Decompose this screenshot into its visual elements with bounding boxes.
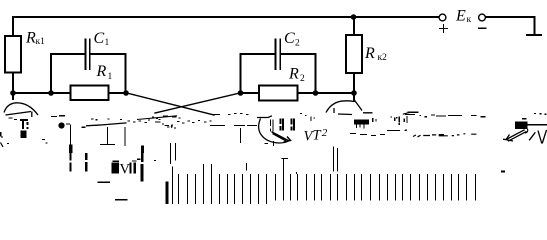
noise dash trail to VT2 base [210, 125, 257, 127]
noise dashes under VT1 [9, 118, 18, 119]
noise specks lower left [1, 137, 48, 143]
capacitor C2 [276, 40, 281, 70]
noise sloped dash line x86-126 [86, 123, 127, 126]
wire C1 branch right [91, 54, 126, 93]
noise line from rect to edge [527, 124, 547, 126]
noise dash x501 [501, 171, 505, 173]
noise ticks below rect [357, 125, 365, 129]
wire cross diagonal from R2 to VT1 base [155, 93, 240, 113]
noise y-mark left edge [1, 143, 4, 148]
noise T top bar on comb [282, 158, 289, 160]
wire bottom rail right cell [241, 92, 355, 94]
noise tick x407 [406, 116, 408, 123]
wire Rк2 top [353, 17, 355, 35]
wire C2 branch right [281, 54, 316, 93]
noise speck left x405 [405, 129, 407, 131]
noise black rect before V [112, 162, 119, 173]
wire C2 branch left riser [241, 54, 276, 93]
svg-text:C: C [284, 30, 295, 47]
noise speck x154 [154, 160, 156, 162]
wire Rк2 bottom [353, 73, 355, 93]
noise dash right of blob [66, 123, 70, 125]
noise dashes upper x162-180 [163, 116, 181, 118]
noise dashes x50-65 [51, 115, 65, 118]
node top rail Rк2 [351, 14, 357, 20]
resistor Rк1 [5, 36, 21, 73]
noise bar remnants x137-143 [141, 153, 144, 162]
transistor VT1 circle arc (corrupted) [4, 103, 38, 115]
noise speck left edge [0, 132, 2, 137]
wire left drop to Rк1 [12, 17, 14, 36]
svg-text:к1: к1 [36, 37, 46, 47]
wire VT1 collector stub [12, 93, 14, 99]
resistor R2 [259, 85, 298, 100]
noise diag dash x403-409 [403, 112, 410, 114]
capacitor C1 [86, 40, 90, 70]
svg-text:E: E [455, 8, 466, 25]
resistor Rк2 [346, 35, 362, 73]
noise thick bar x141 [141, 146, 144, 153]
noise T mark VT1 base [20, 120, 28, 129]
transistor VT1 inner line (corrupted) [6, 112, 32, 118]
svg-text:R: R [25, 30, 36, 47]
wire bottom rail left cell [13, 92, 127, 94]
noise dash above block [112, 160, 119, 162]
noise vertical x125 [124, 127, 126, 146]
noise ii bars after V [130, 163, 132, 174]
noise blob VT1 emitter [21, 131, 27, 139]
svg-text:R: R [288, 66, 299, 83]
svg-text:C: C [94, 30, 105, 47]
noise dash x115-127 [115, 199, 128, 201]
noise specks x176-211 [177, 121, 212, 124]
terminal - of Eк [479, 14, 486, 21]
svg-text:к: к [467, 15, 472, 25]
noise vertical stub above VT2 arc [259, 95, 261, 102]
noise blob circle [58, 122, 64, 128]
node R1 right [123, 90, 129, 96]
noise vertical and shallow dashes near arc [334, 108, 373, 115]
noise dash above ii [132, 160, 136, 162]
noise vertical line x70 [70, 125, 72, 148]
noise c-mark x170 [171, 125, 176, 129]
noise vertical bars x69,x86 lower [71, 153, 87, 172]
terminal + of Eк [439, 14, 446, 21]
noise black rect x515 [515, 122, 527, 129]
svg-text:1: 1 [105, 38, 110, 48]
noise comb1 verticals [165, 182, 168, 204]
wire cross diagonal from R1 to VT2 base [127, 93, 214, 115]
noise dash x97-110 [98, 181, 111, 183]
node C1/R1 left [48, 90, 54, 96]
noise black rect x354 [354, 120, 369, 125]
noise W garble x390-405 [391, 116, 404, 125]
noise comb2 verticals [276, 159, 476, 201]
noise dots top right corner of zone [534, 112, 547, 115]
noise hook at rect corner [525, 129, 528, 133]
svg-text:R: R [364, 45, 375, 62]
noise specks below VT2 [264, 141, 273, 146]
plus sign [440, 25, 447, 32]
svg-text:R: R [96, 63, 107, 80]
svg-text:1: 1 [108, 72, 113, 82]
noise dash x81 [81, 126, 85, 128]
transistor VT2 emitter arrow (corrupted) [272, 132, 291, 142]
noise streak x405-485 upper [405, 112, 486, 117]
noise rising line x137-177 [137, 116, 177, 120]
noise dash over VT2 [257, 116, 272, 118]
node R2 right [313, 90, 319, 96]
noise vertical x241 [240, 128, 242, 143]
noise thick bar x70 bottom [69, 145, 73, 154]
resistor R1 [71, 86, 109, 101]
noise verticals pair x333,x338 [334, 147, 338, 172]
noise specks above line [91, 118, 122, 121]
wire from minus terminal to ground [486, 17, 535, 35]
node at Rк1 bottom [10, 90, 16, 96]
svg-text:к2: к2 [378, 53, 388, 63]
svg-text:T: T [313, 128, 322, 144]
minus sign [479, 27, 486, 29]
wire Rк1 to bottom node [12, 73, 14, 94]
noise specks cluster x127-148 [128, 120, 151, 123]
svg-text:V: V [120, 162, 131, 178]
noise arc top right of VT2 [326, 101, 354, 113]
wire top rail [13, 16, 438, 18]
svg-text:2: 2 [300, 74, 305, 84]
transistor VT2 circle arc (corrupted) [259, 119, 290, 144]
noise diag from node down right [354, 100, 362, 111]
transistor VT2 base bars (corrupted) [271, 119, 274, 131]
noise short bar x246 [246, 163, 248, 171]
ground [527, 34, 541, 36]
noise streak x412-476 lower [413, 134, 476, 137]
noise arrow marks bottom right [503, 130, 527, 142]
noise dashes under x349-406 [350, 131, 407, 136]
wire C1 branch left riser [51, 54, 85, 93]
noise slash marks [529, 130, 546, 144]
noise marks x372 [373, 118, 376, 122]
noise dash above rect [522, 118, 527, 120]
svg-text:2: 2 [295, 39, 300, 49]
node R2 left [238, 90, 244, 96]
noise dashes diag1 continuation [213, 114, 249, 115]
svg-text:2: 2 [322, 127, 328, 139]
noise tick above VT2 label [300, 114, 315, 122]
noise thick bar x141 lower [141, 164, 144, 182]
noise specks cluster x151-175 [152, 117, 173, 127]
noise vertical with foot x107 [100, 127, 115, 145]
noise verticals x171,x176 [171, 143, 176, 164]
wire VT2 collector stub [353, 93, 355, 101]
noise dot above comb [296, 172, 298, 174]
node Rк2 bottom [351, 90, 357, 96]
